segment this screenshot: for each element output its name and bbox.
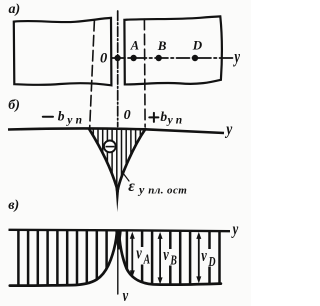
svg-text:v: v	[136, 245, 142, 263]
svg-text:b: b	[58, 108, 65, 123]
svg-text:D: D	[208, 253, 216, 269]
svg-text:B: B	[170, 252, 177, 268]
svg-text:пл. ост: пл. ост	[148, 185, 187, 197]
svg-text:y: y	[137, 183, 145, 197]
svg-text:A: A	[130, 39, 139, 53]
svg-text:в): в)	[8, 198, 19, 213]
svg-text:y: y	[233, 48, 240, 68]
svg-text:y: y	[166, 115, 174, 127]
svg-text:v: v	[123, 287, 129, 305]
svg-text:v: v	[163, 246, 169, 264]
svg-text:0: 0	[100, 51, 107, 67]
svg-text:y: y	[225, 120, 233, 139]
svg-text:б): б)	[8, 98, 20, 113]
svg-text:y: y	[231, 221, 239, 239]
svg-text:D: D	[192, 37, 203, 52]
svg-text:v: v	[201, 247, 207, 265]
svg-text:ε: ε	[128, 178, 135, 195]
svg-text:A: A	[143, 251, 150, 267]
svg-text:n: n	[176, 115, 182, 127]
svg-text:y: y	[65, 114, 73, 126]
svg-text:b: b	[160, 109, 167, 124]
svg-text:B: B	[157, 38, 167, 53]
svg-text:а): а)	[9, 2, 21, 17]
svg-text:n: n	[76, 114, 82, 126]
svg-text:0: 0	[124, 108, 131, 123]
